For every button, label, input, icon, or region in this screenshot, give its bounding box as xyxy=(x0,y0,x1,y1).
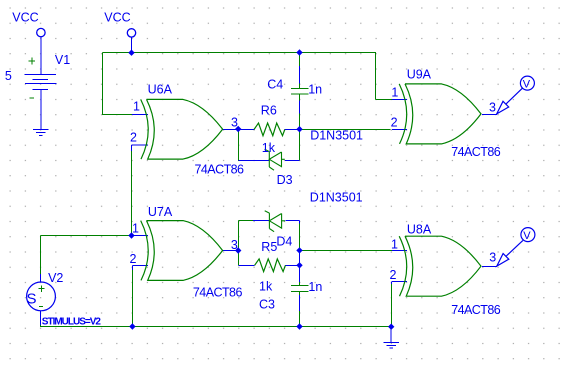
svg-text:C3: C3 xyxy=(259,298,275,312)
svg-text:C4: C4 xyxy=(267,78,283,92)
svg-text:V1: V1 xyxy=(55,53,70,67)
svg-text:2: 2 xyxy=(130,252,137,266)
svg-text:3: 3 xyxy=(231,116,238,130)
svg-text:1n: 1n xyxy=(308,82,322,96)
svg-text:3: 3 xyxy=(231,238,238,252)
svg-text:V: V xyxy=(523,79,531,91)
svg-text:V2: V2 xyxy=(48,271,63,285)
svg-text:S: S xyxy=(27,291,37,308)
svg-text:5: 5 xyxy=(5,69,12,83)
svg-text:R5: R5 xyxy=(261,240,277,254)
svg-text:2: 2 xyxy=(390,268,397,282)
svg-text:U8A: U8A xyxy=(407,222,432,236)
svg-text:D4: D4 xyxy=(276,235,292,249)
svg-text:VCC: VCC xyxy=(104,11,130,25)
svg-text:1: 1 xyxy=(132,222,139,236)
svg-text:1n: 1n xyxy=(308,280,322,294)
svg-text:74ACT86: 74ACT86 xyxy=(451,303,501,317)
svg-text:3: 3 xyxy=(489,251,496,265)
svg-text:1k: 1k xyxy=(262,141,276,155)
svg-text:74ACT86: 74ACT86 xyxy=(195,163,245,177)
svg-text:U9A: U9A xyxy=(407,67,432,81)
svg-text:74ACT86: 74ACT86 xyxy=(193,286,243,300)
svg-text:1: 1 xyxy=(391,238,398,252)
svg-text:U6A: U6A xyxy=(148,83,173,97)
svg-text:VCC: VCC xyxy=(12,11,38,25)
svg-text:D3: D3 xyxy=(277,173,293,187)
svg-text:1: 1 xyxy=(391,86,398,100)
svg-text:1: 1 xyxy=(133,100,140,114)
svg-text:2: 2 xyxy=(391,116,398,130)
svg-text:3: 3 xyxy=(489,101,496,115)
svg-text:2: 2 xyxy=(130,131,137,145)
svg-text:74ACT86: 74ACT86 xyxy=(451,145,501,159)
svg-text:D1N3501: D1N3501 xyxy=(310,129,363,143)
svg-text:STIMULUS=V2: STIMULUS=V2 xyxy=(42,317,102,328)
svg-text:1k: 1k xyxy=(259,279,273,293)
svg-text:U7A: U7A xyxy=(148,205,173,219)
svg-text:V: V xyxy=(523,230,531,242)
svg-text:D1N3501: D1N3501 xyxy=(310,190,363,204)
svg-text:R6: R6 xyxy=(261,104,277,118)
